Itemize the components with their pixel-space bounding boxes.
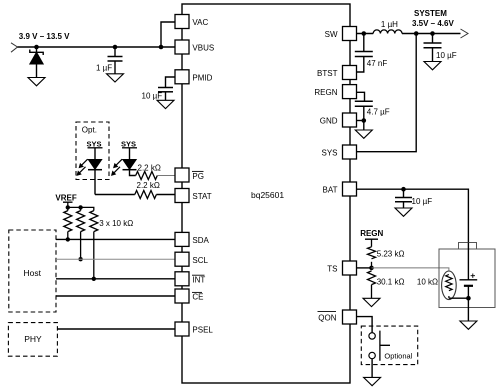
- svg-text:REGN: REGN: [360, 229, 383, 238]
- svg-text:10 µF: 10 µF: [412, 197, 433, 206]
- wire SCL: [56, 258, 175, 260]
- node junction TVS: [34, 45, 39, 50]
- capacitor C2 10uF PMID: [158, 88, 173, 101]
- dashed box Opt.: [76, 122, 109, 180]
- node BAT cap junction: [401, 187, 406, 192]
- VREF rail: [63, 202, 94, 210]
- wire R2 to STAT: [156, 194, 175, 196]
- resistor R3 10kOhm SDA pullup: [64, 211, 72, 232]
- svg-text:BAT: BAT: [323, 185, 338, 194]
- svg-text:PSEL: PSEL: [192, 326, 213, 335]
- resistor R5 10kOhm INT pullup: [90, 211, 98, 232]
- svg-text:1 µF: 1 µF: [96, 64, 112, 73]
- pin PMID: [175, 70, 189, 84]
- wire TS out: [357, 267, 372, 269]
- pin VBUS: [175, 40, 189, 54]
- node SDA junction: [66, 237, 70, 241]
- node SCL junction: [78, 257, 82, 261]
- wire SYS to rail: [357, 34, 417, 152]
- svg-text:SYS: SYS: [321, 148, 337, 157]
- svg-text:TS: TS: [327, 264, 337, 273]
- svg-text:SYS: SYS: [121, 139, 136, 148]
- pin SYS: [343, 145, 357, 159]
- capacitor C6 10uF BAT: [395, 189, 412, 208]
- svg-text:GND: GND: [320, 116, 338, 125]
- ground TVS: [28, 78, 45, 86]
- battery cell BT1: [460, 280, 478, 298]
- pin INT: [175, 272, 189, 286]
- pin SW: [343, 27, 357, 41]
- svg-text:bq25601: bq25601: [251, 190, 284, 200]
- battery pack tab: [459, 243, 477, 250]
- svg-text:REGN: REGN: [314, 88, 337, 97]
- wire R1 to PG: [157, 175, 175, 177]
- svg-text:2.2 kΩ: 2.2 kΩ: [138, 163, 161, 172]
- wire VAC branch: [161, 22, 175, 47]
- svg-text:30.1 kΩ: 30.1 kΩ: [377, 278, 405, 287]
- node INT junction: [92, 277, 96, 281]
- pin CE: [175, 289, 189, 303]
- REGN rail: [365, 239, 378, 247]
- LED D2 (optional): [77, 148, 103, 195]
- wire S1 to ground: [371, 359, 373, 378]
- svg-text:VAC: VAC: [192, 18, 208, 27]
- node junction VAC branch: [159, 45, 164, 50]
- pin BTST: [343, 66, 357, 80]
- svg-text:PHY: PHY: [24, 334, 42, 344]
- wire GND out: [357, 120, 364, 122]
- node pack junction: [466, 296, 471, 301]
- node SW junction: [362, 31, 367, 36]
- node SYS rail junction: [414, 31, 419, 36]
- ground C6: [395, 208, 412, 216]
- svg-text:PMID: PMID: [192, 73, 212, 82]
- dashed box Optional: [361, 326, 417, 365]
- ground R7: [363, 298, 380, 306]
- wire CE: [56, 295, 175, 297]
- svg-text:SCL: SCL: [192, 256, 208, 265]
- svg-text:SDA: SDA: [192, 236, 209, 245]
- svg-text:2.2 kΩ: 2.2 kΩ: [137, 181, 160, 190]
- dashed box Host: [9, 230, 56, 312]
- svg-text:3 x 10 kΩ: 3 x 10 kΩ: [99, 219, 133, 228]
- battery pack box: [439, 249, 495, 308]
- node TS junction: [369, 266, 374, 271]
- svg-text:4.7 µF: 4.7 µF: [367, 108, 390, 117]
- pin GND: [343, 113, 357, 127]
- svg-text:10 µF: 10 µF: [436, 51, 457, 60]
- wire R6 to TS: [371, 262, 373, 268]
- wire SDA: [56, 238, 175, 240]
- pushbutton S1 actuator: [380, 331, 390, 361]
- svg-text:VREF: VREF: [55, 194, 76, 203]
- svg-text:STAT: STAT: [192, 192, 211, 201]
- pin VAC: [175, 15, 189, 29]
- inductor L1 1uH: [373, 30, 402, 34]
- svg-text:INT: INT: [192, 276, 205, 285]
- svg-text:Host: Host: [24, 268, 42, 278]
- ground battery pack: [460, 321, 477, 329]
- resistor R2 2.2kOhm STAT: [135, 191, 157, 199]
- ground C2: [157, 100, 174, 108]
- ground C5: [424, 62, 441, 70]
- resistor R1 2.2kOhm PG: [136, 172, 158, 180]
- wire REGN out: [357, 92, 365, 101]
- capacitor C4 4.7uF REGN: [355, 101, 373, 130]
- pin BAT: [343, 182, 357, 196]
- wire INT: [56, 278, 175, 280]
- wire BAT out: [357, 189, 469, 242]
- svg-text:5.23 kΩ: 5.23 kΩ: [377, 250, 405, 259]
- svg-text:CE: CE: [192, 293, 203, 302]
- node C5 junction: [430, 31, 435, 36]
- svg-text:3.5V – 4.6V: 3.5V – 4.6V: [412, 19, 454, 28]
- pin REGN: [343, 85, 357, 99]
- IC U1 bq25601 body: [182, 4, 350, 383]
- ground S1: [364, 377, 381, 385]
- wire R5 bottom: [93, 232, 95, 279]
- wire R7 to ground: [371, 285, 373, 299]
- pin PG: [175, 168, 189, 182]
- wire thermistor to cell: [449, 297, 469, 299]
- capacitor C1 1uF: [108, 47, 123, 74]
- node VREF bus dot1: [66, 205, 70, 209]
- battery cell BT1 plus: [471, 274, 475, 278]
- ground GND pin: [355, 130, 372, 138]
- ground C1: [107, 74, 124, 82]
- wire TS to thermistor: [372, 268, 449, 272]
- wire QON out: [357, 317, 373, 333]
- svg-text:SYS: SYS: [87, 139, 102, 148]
- wire R3 bottom: [67, 232, 69, 240]
- svg-text:1 µH: 1 µH: [381, 20, 398, 29]
- wire PMID branch: [166, 77, 176, 88]
- pin SCL: [175, 252, 189, 266]
- svg-text:3.9 V – 13.5 V: 3.9 V – 13.5 V: [19, 32, 70, 41]
- LED D3: [111, 148, 137, 176]
- pin TS: [343, 261, 357, 275]
- node junction C1: [113, 45, 118, 50]
- output arrow: [461, 29, 469, 38]
- svg-text:Opt.: Opt.: [82, 125, 97, 134]
- wire PSEL: [57, 328, 175, 330]
- pin STAT: [175, 189, 189, 203]
- resistor R4 10kOhm SCL pullup: [77, 211, 85, 232]
- wire LED1 to R2: [95, 194, 135, 196]
- resistor R7 30.1kOhm: [368, 271, 376, 285]
- svg-text:10 µF: 10 µF: [142, 92, 163, 101]
- wire R4 bottom: [80, 232, 82, 260]
- svg-text:QON: QON: [318, 313, 336, 322]
- diode D1 TVS: [30, 47, 43, 78]
- input connector 3.9V-13.5V: [11, 43, 18, 52]
- svg-text:Optional: Optional: [384, 351, 412, 360]
- svg-text:PG: PG: [192, 172, 204, 181]
- wire input line: [18, 46, 176, 48]
- pushbutton S1 contact 1: [369, 333, 375, 339]
- svg-text:BTST: BTST: [317, 69, 338, 78]
- svg-text:VBUS: VBUS: [192, 44, 214, 53]
- wire pack internal: [467, 243, 469, 280]
- pin SDA: [175, 232, 189, 246]
- capacitor C3 47nF BTST: [355, 34, 373, 73]
- node VREF bus dot2: [78, 205, 82, 209]
- svg-text:10 kΩ: 10 kΩ: [417, 278, 438, 287]
- node GND junction: [362, 118, 367, 123]
- resistor R6 5.23kOhm: [368, 247, 376, 259]
- svg-text:SW: SW: [325, 30, 338, 39]
- wire pack to ground: [467, 298, 469, 321]
- pin QON: [343, 310, 357, 324]
- dashed box PHY: [8, 323, 57, 357]
- thermistor RT1 10kOhm: [442, 271, 457, 300]
- svg-text:SYSTEM: SYSTEM: [414, 9, 447, 18]
- wire SW out: [357, 33, 374, 35]
- wire SYSTEM rail: [402, 33, 461, 35]
- pushbutton S1 contact 2: [369, 352, 375, 358]
- capacitor C5 10uF SYSTEM: [424, 34, 442, 62]
- pin PSEL: [175, 322, 189, 336]
- svg-text:47 nF: 47 nF: [367, 59, 388, 68]
